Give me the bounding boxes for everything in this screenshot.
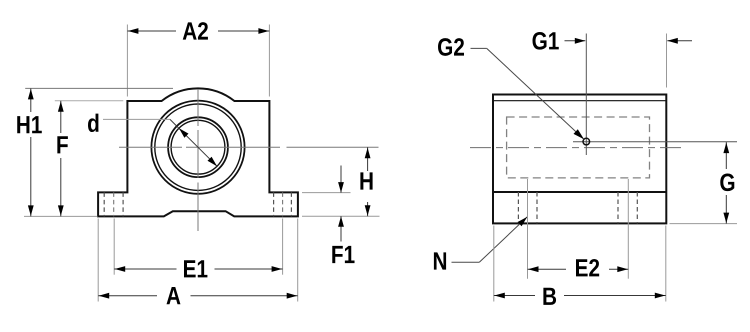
dimension F: [55, 100, 124, 102]
dimension G: [670, 223, 738, 225]
side view top strip line: [493, 100, 666, 102]
bore inner circle: [168, 117, 228, 177]
dimension B: [493, 226, 495, 302]
grease hole circle: [583, 138, 590, 145]
side base hole hidden lines right: [617, 192, 619, 223]
side hidden bearing rectangle: [507, 117, 650, 178]
dimension E2: [527, 179, 529, 279]
front left hole hidden lines: [103, 192, 105, 216]
front left hole centerline: [113, 192, 115, 216]
grease hole vertical centerline: [585, 34, 587, 156]
side view body outline: [493, 95, 666, 224]
dimension F1: [302, 192, 351, 194]
front vertical centerline: [197, 89, 199, 126]
label N with leader: [434, 252, 446, 269]
bore outer circle: [151, 101, 244, 194]
bore second circle: [155, 104, 241, 190]
front horizontal centerline: [119, 146, 182, 148]
side bore centerline: [470, 147, 682, 149]
bore innermost circle: [171, 120, 225, 174]
dimension E1: [113, 219, 115, 275]
grease hole horizontal line / G top extension: [573, 141, 737, 143]
bore diameter arrow: [170, 119, 217, 166]
front right hole hidden lines: [273, 192, 275, 216]
side base hole hidden lines left: [517, 192, 519, 223]
dimension H1: [25, 87, 173, 89]
front view body outline: [98, 88, 298, 216]
dimension G1: [666, 34, 668, 88]
dimension H: [302, 215, 380, 217]
dimension A2: [126, 25, 128, 97]
label G2 with leader: [438, 38, 464, 56]
label d with leader: [88, 114, 98, 132]
dimension A: [97, 219, 99, 302]
front right hole centerline: [282, 192, 284, 216]
side view base top line: [493, 191, 666, 193]
